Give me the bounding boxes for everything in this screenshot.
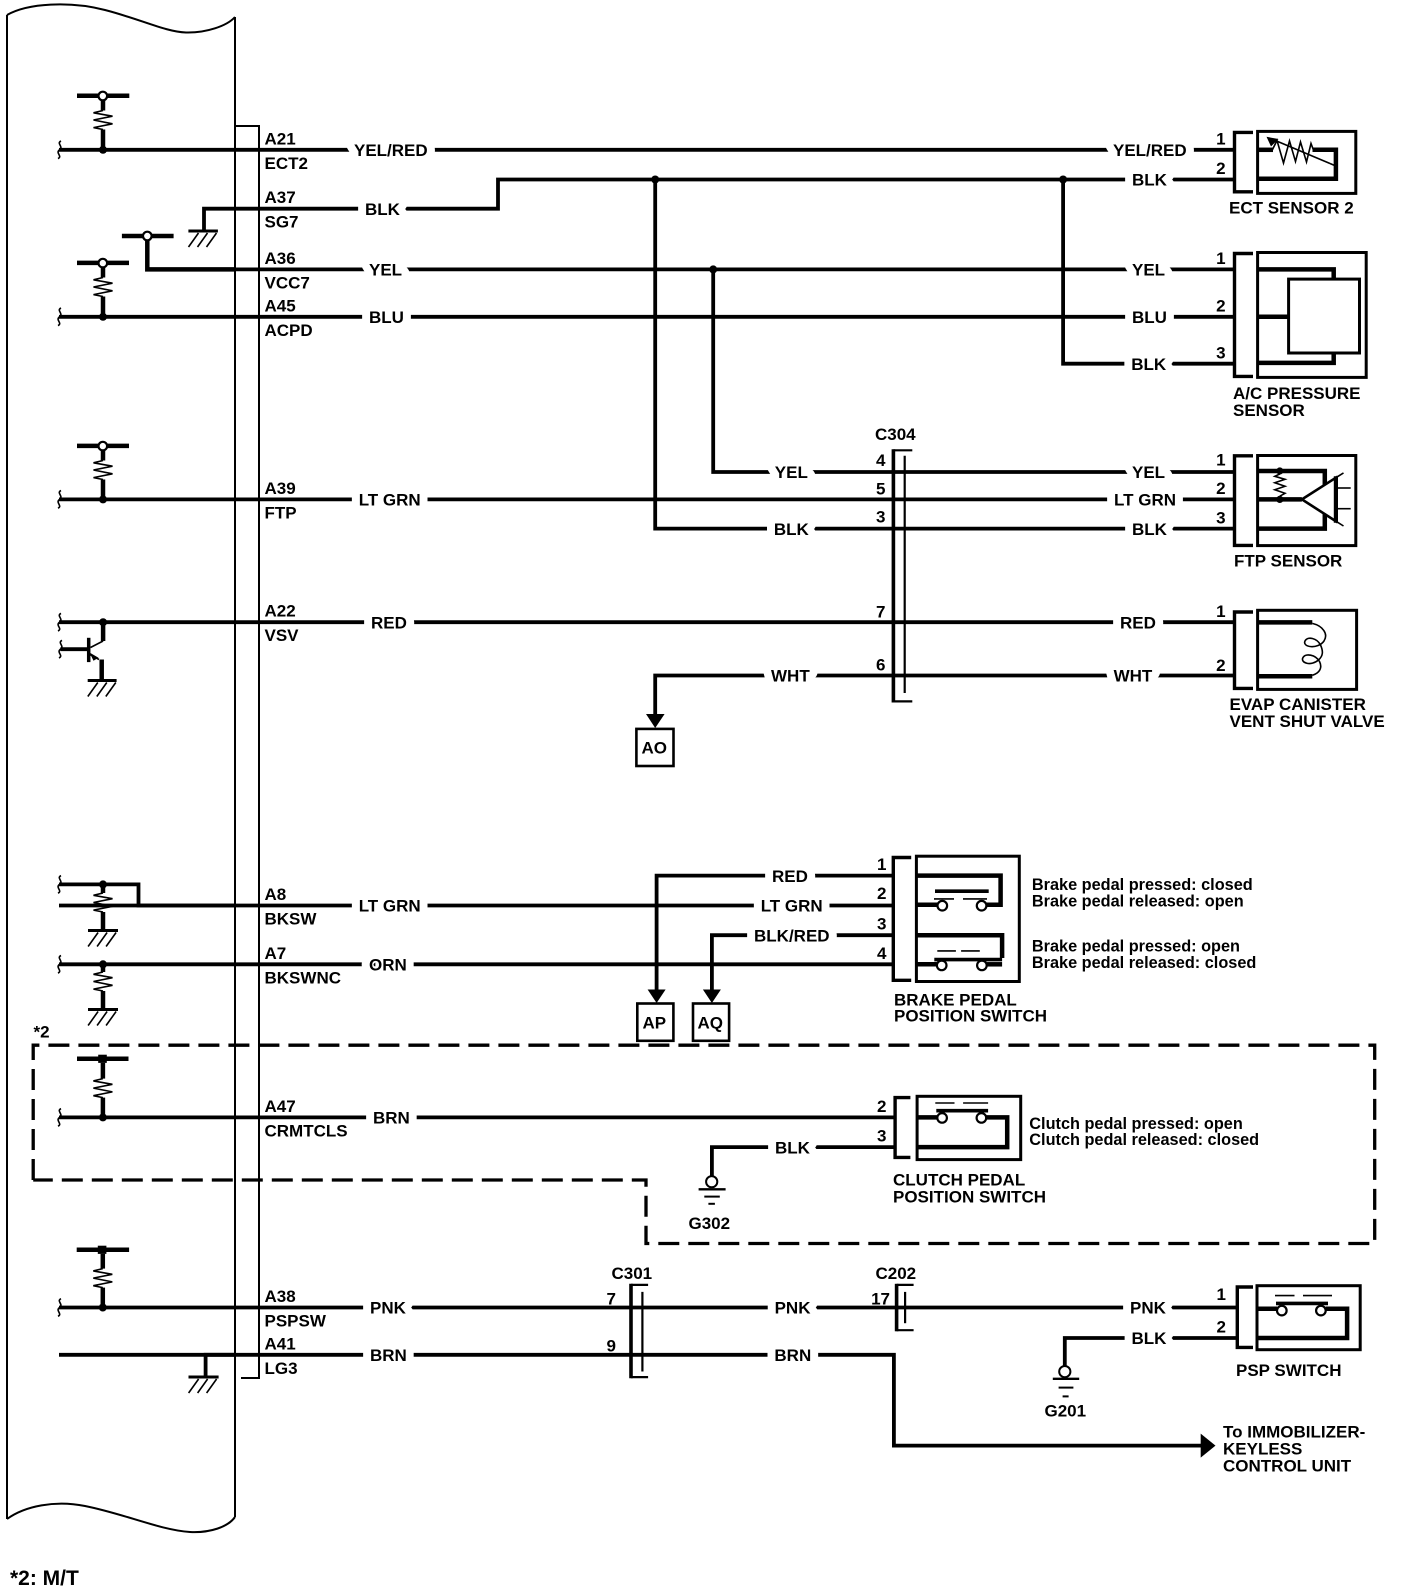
wire label YEL/RED right [1113,141,1187,160]
wire label LT GRN right FTP [1114,491,1176,510]
BRAKE PEDAL POSITION SWITCH connector bracket [893,858,911,981]
wire label BRN at A47 [373,1109,410,1128]
svg-text:Brake pedal released: closed: Brake pedal released: closed [1032,954,1256,972]
svg-text:WHT: WHT [771,667,810,686]
wire break at A45 [58,308,61,326]
wire BLK/RED net brake pedal switch pin 3 to AQ [712,935,893,989]
wire label YEL right AC [1132,261,1165,280]
wire label RED right EVAP [1120,613,1156,632]
wire label YEL mid [775,463,808,482]
wire break at A7 [58,956,61,974]
wire label YEL at A36 [369,261,402,280]
pin A37 SG7 [265,188,299,232]
svg-text:VSV: VSV [265,626,300,645]
svg-text:9: 9 [607,1337,616,1356]
connector C202 [871,1264,916,1331]
svg-text:3: 3 [1216,343,1225,362]
ECU connector bus line [236,126,259,1378]
wire label LT GRN at A39 [359,491,421,510]
wire label WHT right EVAP [1114,667,1153,686]
svg-text:YEL: YEL [1132,261,1165,280]
svg-text:BRN: BRN [373,1109,410,1128]
wire label BRN at A41 [370,1346,407,1365]
footnote *2 M/T [10,1567,79,1590]
svg-text:G302: G302 [689,1214,731,1233]
svg-text:BKSW: BKSW [265,910,318,929]
wire break at A21 [58,141,61,159]
junction dot YEL at x713 [709,265,717,273]
svg-text:Brake pedal pressed: closed: Brake pedal pressed: closed [1032,876,1253,894]
svg-text:BLK/RED: BLK/RED [754,926,830,945]
svg-text:ACPD: ACPD [265,321,313,340]
AQ arrow box [693,1004,729,1041]
svg-text:CRMTCLS: CRMTCLS [265,1121,348,1140]
svg-text:A21: A21 [265,129,296,148]
svg-text:BLK: BLK [365,200,401,219]
wire break at A39 [58,491,61,509]
svg-text:7: 7 [607,1290,616,1309]
svg-text:LT GRN: LT GRN [761,897,823,916]
svg-text:3: 3 [1216,508,1225,527]
wire label YEL right FTP [1132,463,1165,482]
svg-text:ECT2: ECT2 [265,154,308,173]
svg-text:ECT SENSOR 2: ECT SENSOR 2 [1229,199,1354,218]
svg-text:BRN: BRN [370,1346,407,1365]
wire label RED mid [772,867,808,886]
svg-text:BRN: BRN [774,1346,811,1365]
svg-text:BLK: BLK [1131,355,1167,374]
svg-text:CLUTCH PEDAL: CLUTCH PEDAL [893,1171,1025,1190]
svg-text:Clutch pedal released: closed: Clutch pedal released: closed [1029,1131,1259,1149]
wire BLK branch down to C304 pin 3 [655,180,1234,529]
svg-text:2: 2 [1217,1318,1226,1337]
svg-text:BLK: BLK [774,520,810,539]
svg-text:3: 3 [877,1127,886,1146]
svg-text:2: 2 [1216,297,1225,316]
pin A47 CRMTCLS [265,1097,348,1141]
wire label PNK right PSP [1130,1299,1167,1318]
ECM/PCM torn strip bottom edge [7,1504,235,1532]
wire YEL/RED net A21 to ECT SENSOR 2 pin 1 [59,148,1234,152]
svg-text:1: 1 [1216,130,1225,149]
svg-text:1: 1 [1217,1285,1226,1304]
svg-text:LG3: LG3 [265,1359,298,1378]
wire label BRN mid [774,1346,811,1365]
pull-up resistor R1 on ECT2 line [77,92,129,154]
wire label BLK/RED mid [754,926,830,945]
svg-text:2: 2 [1216,656,1225,675]
svg-text:A22: A22 [265,602,296,621]
wire label ORN at A7 [369,956,407,975]
svg-text:2: 2 [877,884,886,903]
svg-text:BLK: BLK [1132,1329,1168,1348]
pull-up resistor R2 on ACPD line [77,259,129,321]
wire break at A38 [58,1299,61,1317]
wire label YEL/RED left [354,141,428,160]
wire BRN net A47 to clutch pedal switch pin 2 [59,1116,895,1120]
wire label BLK at A37 [365,200,401,219]
svg-text:AO: AO [642,739,668,758]
svg-text:A38: A38 [265,1287,296,1306]
svg-text:PSPSW: PSPSW [265,1312,327,1331]
svg-text:*2: *2 [34,1023,50,1042]
pull-down resistor R4 on BKSW line [59,880,235,946]
FTP SENSOR [1216,451,1356,571]
svg-text:1: 1 [1216,451,1225,470]
svg-text:FTP: FTP [265,503,297,522]
svg-text:A8: A8 [265,885,287,904]
arrowhead to immobilizer-keyless control unit [1201,1434,1216,1458]
wire label BLK right FTP [1132,520,1168,539]
svg-text:A39: A39 [265,479,296,498]
svg-text:PSP SWITCH: PSP SWITCH [1236,1361,1341,1380]
svg-text:*2: M/T: *2: M/T [10,1567,79,1590]
wire BLU net A45 to A/C pressure sensor pin 2 [59,315,1234,319]
svg-text:YEL/RED: YEL/RED [354,141,428,160]
junction dot BLK at x1063 [1059,176,1067,184]
EVAP CANISTER VENT SHUT VALVE connector bracket [1235,612,1254,688]
svg-text:SG7: SG7 [265,213,299,232]
pin A8 BKSW [265,885,318,929]
wire label RED at A22 [371,613,407,632]
FTP SENSOR connector bracket [1235,456,1254,546]
CLUTCH PEDAL POSITION SWITCH connector bracket [895,1098,910,1158]
wire BLK net PSP switch pin 2 to G201 [1065,1338,1238,1366]
arrowhead to AQ [703,990,721,1004]
svg-text:1: 1 [1216,602,1225,621]
svg-text:BKSWNC: BKSWNC [265,968,342,987]
svg-text:PNK: PNK [775,1299,812,1318]
svg-text:BLU: BLU [369,308,404,327]
pin A21 ECT2 [265,129,308,173]
pin A39 FTP [265,479,297,523]
svg-text:BLK: BLK [1132,520,1168,539]
clutch switch annotation [1029,1115,1259,1149]
svg-text:2: 2 [877,1097,886,1116]
svg-text:2: 2 [1216,479,1225,498]
svg-text:A37: A37 [265,188,296,207]
wire label LT GRN mid [761,897,823,916]
brake switch annotation [1032,876,1256,972]
wire YEL net A36 to A/C pressure sensor pin 1 [235,267,1234,271]
wire BLK net A37 segment to bend [235,180,1234,209]
A/C PRESSURE SENSOR [1216,249,1366,420]
pin A7 BKSWNC [265,944,342,988]
svg-text:VENT SHUT VALVE: VENT SHUT VALVE [1230,712,1385,731]
ground G302 [689,1176,731,1233]
pin A38 PSPSW [265,1287,327,1331]
wire break at Q1 base [59,640,62,658]
ground at SG7 [188,209,235,247]
svg-text:1: 1 [1216,249,1225,268]
connector C304 [875,425,916,703]
svg-text:A7: A7 [265,944,287,963]
wire label PNK at A38 [370,1299,407,1318]
wire break at A8 [58,876,61,894]
pin A22 VSV [265,602,300,646]
svg-text:RED: RED [371,613,407,632]
pull-up resistor R6 on CRMTCLS line [77,1055,129,1122]
wire break at A22 [58,613,61,631]
svg-text:A45: A45 [265,296,296,315]
svg-text:1: 1 [877,855,886,874]
svg-text:5: 5 [876,479,885,498]
wire RED net A22 to EVAP valve pin 1 [59,620,1234,624]
svg-text:AQ: AQ [698,1014,724,1033]
wire LT GRN net A39 to FTP pin 2 [59,497,1234,501]
svg-text:C202: C202 [876,1264,917,1283]
svg-text:BLK: BLK [1132,171,1168,190]
svg-text:3: 3 [876,508,885,527]
svg-text:BLU: BLU [1132,308,1167,327]
svg-text:LT GRN: LT GRN [359,491,421,510]
svg-text:YEL/RED: YEL/RED [1113,141,1187,160]
supply node on VCC7 line [122,232,235,270]
svg-text:VCC7: VCC7 [265,273,310,292]
wire label PNK mid [775,1299,812,1318]
wire LT GRN net A8 to brake pedal switch pin 2 [59,904,893,908]
wire BLK net clutch pedal switch pin 3 to G302 [712,1147,895,1176]
svg-text:AP: AP [643,1014,667,1033]
wire label BLK mid [774,520,810,539]
arrowhead to AP [648,990,666,1004]
junction dot BLK at x655 [651,176,659,184]
EVAP CANISTER VENT SHUT VALVE [1216,602,1385,731]
svg-text:LT GRN: LT GRN [359,897,421,916]
AO arrow box [636,729,673,766]
svg-text:3: 3 [877,915,886,934]
wire PNK net A38 to PSP switch pin 1 [59,1306,1237,1310]
CLUTCH PEDAL POSITION SWITCH [877,1096,1046,1206]
ground G201 [1045,1366,1087,1420]
connector C301 [607,1264,653,1378]
wire label BLU right AC [1132,308,1167,327]
svg-text:4: 4 [877,944,887,963]
wire RED net brake pedal switch pin 1 to AP [657,876,894,990]
ECM/PCM torn strip left edge [6,15,8,1519]
svg-text:BLK: BLK [775,1138,811,1157]
wire BLK branch down to A/C pressure sensor pin 3 [1063,180,1234,364]
wire label BLK at G302 [775,1138,811,1157]
wire label LT GRN at A8 [359,897,421,916]
svg-text:YEL: YEL [369,261,402,280]
svg-text:FTP SENSOR: FTP SENSOR [1234,551,1342,570]
svg-text:POSITION SWITCH: POSITION SWITCH [893,1188,1046,1207]
svg-text:RED: RED [1120,613,1156,632]
svg-text:WHT: WHT [1114,667,1153,686]
wire WHT net EVAP valve pin 2 to AO [655,676,1234,715]
ECM/PCM torn strip right edge [234,17,236,1517]
ECT SENSOR 2 [1216,130,1356,218]
A/C PRESSURE SENSOR connector bracket [1235,254,1254,377]
PSP SWITCH [1217,1285,1361,1380]
arrowhead to AO [646,714,665,728]
pull-up resistor R3 on FTP line [77,442,129,504]
svg-text:Brake pedal pressed: open: Brake pedal pressed: open [1032,938,1240,956]
svg-text:PNK: PNK [1130,1299,1167,1318]
pin A45 ACPD [265,296,313,340]
wire YEL branch down to C304 pin 4 and FTP pin 1 [713,269,1234,472]
wire label BLK right AC [1131,355,1167,374]
svg-text:POSITION SWITCH: POSITION SWITCH [894,1007,1047,1026]
svg-text:Brake pedal released: open: Brake pedal released: open [1032,892,1244,910]
svg-text:PNK: PNK [370,1299,407,1318]
svg-text:7: 7 [876,603,885,622]
svg-text:YEL: YEL [1132,463,1165,482]
pull-down resistor R5 on BKSWNC line [88,960,118,1025]
to immobilizer text [1223,1422,1365,1475]
svg-text:C301: C301 [612,1264,653,1283]
svg-text:A41: A41 [265,1334,296,1353]
svg-text:4: 4 [876,451,886,470]
dashed M/T option box *2 [33,1023,1375,1244]
wire label WHT mid [771,667,810,686]
PSP SWITCH connector bracket [1237,1287,1253,1347]
wire ORN net A7 to brake pedal switch pin 4 [59,962,893,966]
wire label BLK right PSP [1132,1329,1168,1348]
AP arrow box [637,1004,673,1041]
svg-text:ORN: ORN [369,956,407,975]
svg-text:17: 17 [871,1290,890,1309]
svg-text:2: 2 [1216,159,1225,178]
svg-text:C304: C304 [875,425,916,444]
pin A41 LG3 [265,1334,298,1378]
wire break at A47 [58,1109,61,1127]
svg-text:SENSOR: SENSOR [1233,401,1305,420]
BRAKE PEDAL POSITION SWITCH [877,855,1047,1026]
wire BRN net A41 to immobilizer arrow [59,1355,1201,1446]
svg-text:6: 6 [876,655,885,674]
svg-text:CONTROL UNIT: CONTROL UNIT [1223,1456,1352,1475]
ECM/PCM torn strip top edge [7,4,235,32]
ECT SENSOR 2 connector bracket [1235,132,1254,191]
svg-text:G201: G201 [1045,1401,1087,1420]
pull-up resistor R7 on PSPSW line [77,1246,129,1312]
transistor Q1 on VSV line [60,618,116,696]
svg-text:YEL: YEL [775,463,808,482]
svg-text:LT GRN: LT GRN [1114,491,1176,510]
pin A36 VCC7 [265,249,310,293]
wire label BLU at A45 [369,308,404,327]
wire label BLK right ECT [1132,171,1168,190]
svg-text:A36: A36 [265,249,296,268]
svg-text:RED: RED [772,867,808,886]
ground at LG3 [189,1355,236,1393]
svg-text:A47: A47 [265,1097,296,1116]
